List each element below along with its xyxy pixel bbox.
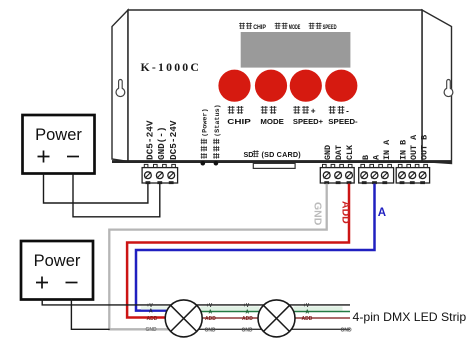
svg-text:ADD: ADD [205, 316, 216, 322]
svg-text:A: A [306, 309, 310, 315]
svg-text:ADD: ADD [302, 316, 313, 322]
svg-text:A: A [149, 309, 153, 315]
svg-text:CLK: CLK [345, 144, 355, 160]
LCD display [241, 32, 351, 68]
svg-text:OUT A: OUT A [409, 134, 419, 160]
wire PS2 + / +V line to strip [42, 300, 350, 305]
svg-text:ADD: ADD [340, 201, 352, 224]
svg-text:+V: +V [243, 303, 250, 309]
svg-text:A: A [246, 309, 250, 315]
SD card slot [253, 163, 295, 168]
right keyhole slot [444, 79, 453, 96]
svg-text:Power: Power [35, 126, 82, 144]
svg-text:MODE: MODE [260, 117, 284, 126]
svg-text:CHIP: CHIP [227, 117, 251, 126]
svg-text:GND: GND [312, 202, 324, 226]
svg-text:B: B [361, 155, 371, 160]
indicator label (Status) [213, 104, 222, 158]
svg-text:Power: Power [34, 252, 81, 270]
svg-text:SPEED-: SPEED- [328, 117, 358, 126]
wire GND (gray) from J2 to strip [109, 184, 326, 330]
button S4 (SPEED-) [325, 70, 357, 102]
power supply PS1 [23, 115, 95, 174]
power supply PS2 [21, 241, 93, 300]
svg-text:4-pin DMX LED Strip: 4-pin DMX LED Strip [353, 310, 467, 324]
svg-text:GND: GND [341, 327, 353, 333]
wire PS1 - to GND(-) [73, 174, 160, 217]
svg-text:-: - [346, 107, 349, 116]
button S2 label MODE [261, 106, 268, 114]
terminal block J1 (DC power in) [144, 164, 148, 167]
button S1 label CHIP [228, 106, 235, 114]
indicator label (Power) [201, 108, 210, 158]
header label MODE [275, 23, 281, 29]
svg-text:A: A [378, 207, 386, 219]
status indicator LED [214, 161, 219, 166]
wire PS2 - to GND bus [71, 300, 109, 330]
svg-text:CHIP: CHIP [253, 24, 266, 31]
svg-text:A: A [209, 309, 213, 315]
wire ADD (red) from CLK to strip [127, 184, 349, 318]
LED pixel D2 [258, 300, 295, 337]
svg-text:+: + [311, 107, 316, 116]
svg-text:SPEED: SPEED [323, 24, 337, 31]
svg-text:GND: GND [242, 327, 254, 333]
svg-text:IN B: IN B [399, 140, 409, 160]
terminal block J3 (B A INA) [361, 164, 365, 167]
svg-text:DAT: DAT [334, 145, 344, 160]
svg-text:SD: SD [244, 150, 254, 159]
terminal block J2 (GND DAT CLK) [323, 164, 327, 167]
LED pixel D1 [165, 300, 202, 337]
svg-text:K-1000C: K-1000C [141, 60, 202, 74]
wire A (blue) from J3 to strip [136, 184, 375, 311]
svg-text:(Power): (Power) [202, 108, 210, 137]
power indicator LED [201, 161, 206, 166]
svg-text:GND: GND [323, 145, 333, 160]
button S2 (MODE) [255, 70, 287, 102]
button S1 (CHIP) [218, 70, 250, 102]
strip line ADD (dark red) [202, 317, 350, 319]
controller U1 left mounting flange [112, 10, 128, 162]
button S4 label SPEED- [329, 106, 336, 114]
svg-text:OUT B: OUT B [419, 135, 429, 160]
svg-text:ADD: ADD [147, 316, 158, 322]
svg-text:ADD: ADD [242, 316, 253, 322]
controller U1 enclosure [128, 10, 422, 162]
strip line A (green) [201, 311, 350, 313]
svg-text:GND(-): GND(-) [157, 127, 167, 161]
controller bottom edge [112, 160, 452, 163]
terminal block J4 (INB OUTA OUTB) [398, 164, 402, 167]
wire PS1 + to DC5-24V [44, 174, 148, 204]
svg-text:DC5-24V: DC5-24V [145, 120, 155, 160]
svg-text:(Status): (Status) [214, 104, 222, 137]
green tint band [141, 306, 168, 309]
svg-text:IN A: IN A [382, 139, 392, 160]
svg-text:SPEED+: SPEED+ [293, 117, 324, 126]
svg-text:+V: +V [206, 303, 213, 309]
svg-text:+V: +V [303, 303, 310, 309]
button S3 label SPEED+ [293, 106, 300, 114]
left keyhole slot [116, 80, 125, 97]
svg-text:(SD CARD): (SD CARD) [262, 150, 302, 159]
strip line GND (dark) [199, 328, 350, 330]
svg-text:DC5-24V: DC5-24V [169, 120, 179, 160]
controller U1 right mounting flange [422, 10, 452, 164]
svg-text:GND: GND [205, 327, 217, 333]
button S3 (SPEED+) [290, 70, 322, 102]
header label CHIP [239, 23, 245, 29]
header label SPEED [309, 23, 315, 29]
svg-text:GND: GND [146, 327, 158, 333]
svg-text:MODE: MODE [289, 24, 301, 31]
